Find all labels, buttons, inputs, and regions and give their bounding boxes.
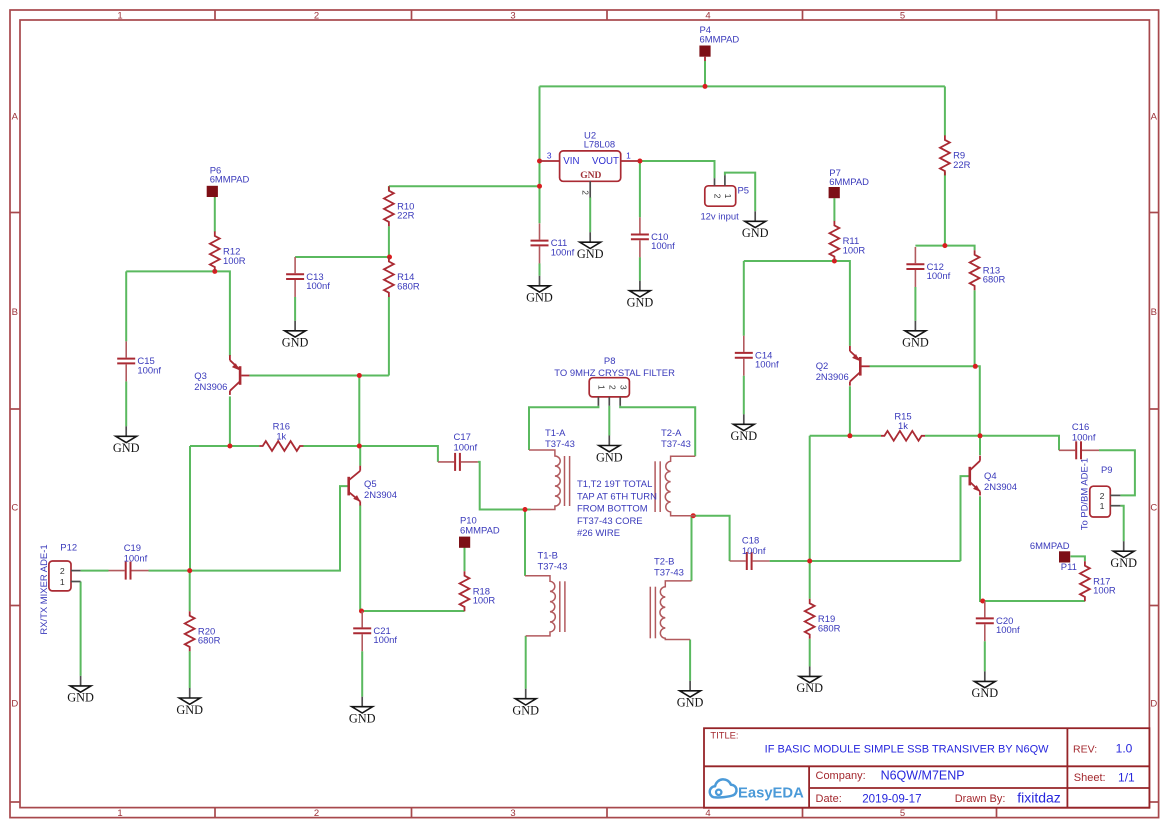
ground R19 bbox=[796, 666, 823, 695]
svg-text:P5: P5 bbox=[738, 186, 750, 197]
node junction bbox=[973, 364, 978, 369]
svg-text:GND: GND bbox=[526, 291, 553, 305]
wire R9 to node bbox=[944, 172, 946, 246]
capacitor C21 bbox=[353, 611, 397, 651]
svg-text:12v input: 12v input bbox=[700, 211, 739, 222]
connector P12 RX/TX MIXER ADE-1 bbox=[39, 542, 81, 634]
svg-text:1: 1 bbox=[1100, 501, 1105, 511]
svg-text:GND: GND bbox=[282, 336, 309, 350]
wire U2 pin2 to GND bbox=[589, 197, 591, 232]
capacitor C13 bbox=[286, 257, 330, 297]
resistor R19 bbox=[805, 599, 841, 639]
svg-text:2N3904: 2N3904 bbox=[984, 482, 1017, 493]
wire VCC rail bbox=[540, 85, 945, 87]
node junction bbox=[357, 444, 362, 449]
svg-text:5: 5 bbox=[900, 808, 905, 819]
svg-text:100R: 100R bbox=[223, 256, 246, 267]
svg-text:T2-A: T2-A bbox=[661, 428, 682, 439]
ground P8 bbox=[596, 436, 623, 465]
node junction bbox=[942, 243, 947, 248]
capacitor C18 bbox=[730, 535, 770, 570]
svg-text:3: 3 bbox=[510, 10, 515, 21]
svg-text:P12: P12 bbox=[60, 542, 77, 553]
U2 pin 2 bbox=[581, 181, 591, 197]
svg-text:D: D bbox=[11, 698, 18, 709]
svg-text:1: 1 bbox=[723, 194, 733, 199]
wire rail to R9 bbox=[944, 86, 946, 135]
svg-text:C16: C16 bbox=[1072, 422, 1089, 433]
U2 pin 3 bbox=[540, 150, 560, 161]
svg-text:P8: P8 bbox=[604, 356, 616, 367]
svg-text:2: 2 bbox=[581, 190, 591, 195]
pad P4 6MMPAD bbox=[699, 46, 710, 57]
ground C21 bbox=[349, 697, 376, 726]
svg-text:Date:: Date: bbox=[816, 793, 842, 805]
wire P6 to R12 bbox=[214, 197, 216, 232]
svg-text:100nf: 100nf bbox=[742, 546, 766, 557]
svg-text:C18: C18 bbox=[742, 535, 759, 546]
resistor R14 bbox=[384, 257, 420, 297]
svg-text:GND: GND bbox=[67, 691, 94, 705]
svg-text:1: 1 bbox=[117, 10, 122, 21]
title block bbox=[704, 728, 1149, 808]
svg-text:GND: GND bbox=[113, 441, 140, 455]
wire Q5 emitter to R18 line bbox=[360, 505, 464, 611]
wire T2-B to GND bbox=[689, 640, 691, 681]
capacitor C17 bbox=[438, 432, 478, 471]
wire VIN node to R10 bbox=[389, 185, 540, 187]
wire R12 node to Q3 emitter bbox=[215, 271, 230, 356]
svg-text:GND: GND bbox=[512, 704, 539, 718]
svg-text:6MMPAD: 6MMPAD bbox=[460, 526, 500, 537]
svg-text:TO 9MHZ CRYSTAL FILTER: TO 9MHZ CRYSTAL FILTER bbox=[554, 368, 675, 379]
svg-text:T37-43: T37-43 bbox=[661, 439, 691, 450]
wire Q2 collector down bbox=[849, 386, 851, 436]
svg-text:5: 5 bbox=[900, 10, 905, 21]
svg-text:FROM BOTTOM: FROM BOTTOM bbox=[577, 504, 648, 515]
pad P10 6MMPAD bbox=[459, 537, 470, 548]
wire stub bbox=[361, 610, 363, 612]
wire C21 to GND bbox=[361, 651, 363, 697]
transistor Q5 bbox=[349, 466, 397, 506]
svg-text:#26 WIRE: #26 WIRE bbox=[577, 528, 620, 539]
wire up to Q4 base bbox=[961, 476, 969, 561]
ground R20 bbox=[176, 688, 203, 717]
wire C13 to GND bbox=[294, 297, 296, 321]
svg-text:B: B bbox=[12, 307, 18, 318]
svg-text:100R: 100R bbox=[843, 245, 866, 256]
capacitor C11 bbox=[531, 223, 575, 263]
wire Q2 collector node to R19 bbox=[809, 436, 811, 599]
wire U2 VOUT to P5 pin2 bbox=[640, 161, 715, 178]
svg-text:GND: GND bbox=[742, 226, 769, 240]
wire R19 to GND bbox=[809, 639, 811, 667]
wire C13 node bbox=[295, 256, 389, 258]
svg-text:4: 4 bbox=[705, 808, 710, 819]
wire node to Q5 collector bbox=[359, 446, 361, 466]
wire T2-A to C18 bbox=[693, 516, 729, 561]
svg-text:1k: 1k bbox=[276, 431, 286, 442]
wire C18 node to Q4 base bbox=[770, 560, 961, 562]
svg-text:6MMPAD: 6MMPAD bbox=[700, 35, 740, 46]
svg-text:22R: 22R bbox=[953, 160, 970, 171]
resistor R15 bbox=[881, 411, 925, 440]
wire C11 to GND bbox=[539, 263, 541, 276]
ground C10 bbox=[627, 281, 654, 310]
svg-text:100nf: 100nf bbox=[137, 365, 161, 376]
svg-text:6MMPAD: 6MMPAD bbox=[1030, 541, 1070, 552]
wire node to C12 bbox=[915, 245, 945, 247]
wire R20 to GND bbox=[189, 651, 191, 688]
resistor R10 bbox=[384, 186, 415, 226]
svg-text:TAP AT 6TH TURN: TAP AT 6TH TURN bbox=[577, 491, 657, 502]
wire R17 line bbox=[983, 600, 1085, 602]
wire C14 to GND bbox=[743, 376, 745, 415]
resistor R17 bbox=[1080, 561, 1116, 601]
wire P9 pin1 to GND bbox=[1120, 506, 1123, 542]
pad P6 6MMPAD bbox=[207, 186, 218, 197]
svg-text:REV:: REV: bbox=[1073, 744, 1097, 756]
capacitor C19 bbox=[109, 543, 149, 579]
svg-text:3: 3 bbox=[510, 808, 515, 819]
svg-text:GND: GND bbox=[627, 296, 654, 310]
svg-text:2019-09-17: 2019-09-17 bbox=[862, 792, 921, 805]
svg-text:GND: GND bbox=[577, 247, 604, 261]
wire down to C19 node bbox=[189, 446, 191, 571]
transformer winding T2-B bbox=[650, 556, 691, 639]
svg-text:Q4: Q4 bbox=[984, 471, 997, 482]
wire T1-A bottom left bbox=[480, 509, 531, 511]
wire node left bbox=[810, 435, 850, 437]
resistor R16 bbox=[259, 422, 303, 451]
svg-text:GND: GND bbox=[730, 429, 757, 443]
wire node to C16 bbox=[980, 436, 1059, 451]
svg-text:4: 4 bbox=[705, 10, 710, 21]
svg-text:100R: 100R bbox=[473, 596, 496, 607]
svg-text:FT37-43 CORE: FT37-43 CORE bbox=[577, 516, 643, 527]
wire node to Q4 collector bbox=[979, 436, 981, 455]
svg-text:GND: GND bbox=[349, 712, 376, 726]
svg-text:B: B bbox=[1151, 307, 1157, 318]
svg-text:1k: 1k bbox=[898, 421, 908, 432]
svg-text:Q3: Q3 bbox=[194, 371, 207, 382]
svg-text:Q2: Q2 bbox=[816, 361, 829, 372]
wire Q3 collector down bbox=[229, 396, 231, 446]
wire R11 node left bbox=[744, 260, 835, 262]
node junction bbox=[359, 609, 364, 614]
wire Q4 emitter down bbox=[980, 496, 983, 601]
svg-text:T1,T2 19T TOTAL: T1,T2 19T TOTAL bbox=[577, 479, 652, 490]
wire node to R20 bbox=[189, 571, 191, 612]
wire C17 to T1-A bottom bbox=[478, 462, 525, 510]
svg-text:3: 3 bbox=[618, 385, 628, 390]
wire R10 top stub bbox=[388, 186, 390, 190]
ground T1-B bbox=[512, 689, 539, 718]
pad P11 6MMPAD bbox=[1059, 551, 1070, 562]
capacitor C20 bbox=[976, 601, 1020, 641]
wire base line to R16 line bbox=[358, 376, 360, 447]
svg-text:100nf: 100nf bbox=[996, 625, 1020, 636]
svg-text:T37-43: T37-43 bbox=[545, 439, 575, 450]
wire R16 left bbox=[190, 445, 259, 447]
wire Q2 base line bbox=[870, 365, 975, 367]
wire P10 to R18 bbox=[464, 548, 466, 572]
wire R15 to node bbox=[925, 435, 980, 437]
svg-text:EasyEDA: EasyEDA bbox=[738, 786, 804, 802]
svg-text:680R: 680R bbox=[818, 623, 841, 634]
svg-text:C17: C17 bbox=[454, 432, 471, 443]
ground P5 bbox=[742, 211, 769, 240]
wire node to Q5 base bbox=[190, 486, 348, 570]
ground P9 bbox=[1110, 541, 1137, 570]
svg-text:2: 2 bbox=[314, 10, 319, 21]
wire P4 to VCC rail bbox=[704, 61, 706, 87]
svg-text:2N3906: 2N3906 bbox=[194, 382, 227, 393]
ground C11 bbox=[526, 276, 553, 305]
svg-text:1: 1 bbox=[626, 150, 631, 160]
ground C20 bbox=[971, 671, 998, 700]
svg-text:2: 2 bbox=[713, 194, 723, 199]
svg-text:fixitdaz: fixitdaz bbox=[1017, 789, 1061, 805]
svg-text:D: D bbox=[1150, 698, 1157, 709]
svg-text:A: A bbox=[12, 111, 19, 122]
wire VOUT to C10 bbox=[639, 161, 641, 217]
svg-text:C: C bbox=[11, 502, 18, 513]
wire C16 to P9 pin2 bbox=[1099, 450, 1135, 495]
wire to R15 bbox=[850, 435, 881, 437]
svg-text:Sheet:: Sheet: bbox=[1074, 772, 1106, 784]
svg-text:2N3904: 2N3904 bbox=[364, 490, 397, 501]
svg-text:To PD/BM ADE-1: To PD/BM ADE-1 bbox=[1080, 458, 1091, 530]
wire R11 node to Q2 emitter bbox=[834, 261, 850, 346]
wire to C14 bbox=[743, 261, 745, 336]
connector P5 bbox=[700, 175, 749, 222]
svg-text:GND: GND bbox=[971, 686, 998, 700]
ground C15 bbox=[113, 426, 140, 455]
capacitor C16 bbox=[1059, 422, 1099, 459]
svg-text:GND: GND bbox=[1110, 556, 1137, 570]
node junction bbox=[637, 159, 642, 164]
wire P12 pin1 to GND bbox=[80, 582, 82, 676]
svg-text:P9: P9 bbox=[1101, 465, 1113, 476]
svg-text:680R: 680R bbox=[397, 282, 420, 293]
node junction bbox=[227, 444, 232, 449]
svg-text:Q5: Q5 bbox=[364, 479, 377, 490]
wire C12 to GND bbox=[914, 287, 916, 321]
node junction bbox=[387, 255, 392, 260]
svg-text:T1-B: T1-B bbox=[538, 550, 558, 561]
wire P11 to R17 bbox=[1071, 556, 1085, 561]
connector P8 TO 9MHZ CRYSTAL FILTER bbox=[554, 356, 675, 406]
svg-text:GND: GND bbox=[596, 450, 623, 464]
U2 pin 1 bbox=[621, 150, 639, 161]
svg-text:T2-B: T2-B bbox=[654, 556, 674, 567]
svg-text:100nf: 100nf bbox=[373, 635, 397, 646]
wire T1-B to GND bbox=[525, 636, 527, 689]
wire Q3 base line bbox=[249, 375, 389, 377]
wire T1-A to T1-B bbox=[524, 510, 526, 576]
svg-text:680R: 680R bbox=[198, 636, 221, 647]
capacitor C14 bbox=[735, 336, 779, 376]
svg-text:2: 2 bbox=[608, 385, 618, 390]
transformer winding T2-A bbox=[655, 428, 695, 516]
svg-text:1/1: 1/1 bbox=[1118, 771, 1135, 785]
svg-text:GND: GND bbox=[677, 696, 704, 710]
wire node to R13 bbox=[945, 246, 975, 251]
resistor R13 bbox=[970, 250, 1006, 290]
resistor R20 bbox=[185, 611, 221, 651]
node junction bbox=[212, 269, 217, 274]
svg-text:GND: GND bbox=[580, 171, 601, 181]
svg-text:100nf: 100nf bbox=[306, 281, 330, 292]
svg-text:1: 1 bbox=[60, 577, 65, 587]
node junction bbox=[187, 568, 192, 573]
ground T2-B bbox=[677, 681, 704, 710]
wire P8 pin2 to GND bbox=[608, 406, 610, 436]
resistor R12 bbox=[210, 231, 246, 271]
svg-text:P11: P11 bbox=[1061, 562, 1077, 573]
svg-text:100nf: 100nf bbox=[454, 443, 478, 454]
ground C12 bbox=[902, 321, 929, 350]
node junction bbox=[807, 559, 812, 564]
wire C15 top bbox=[125, 271, 127, 341]
svg-text:100nf: 100nf bbox=[124, 554, 148, 565]
svg-text:T37-43: T37-43 bbox=[538, 561, 568, 572]
svg-text:N6QW/M7ENP: N6QW/M7ENP bbox=[881, 769, 965, 783]
svg-text:T1-A: T1-A bbox=[545, 428, 566, 439]
wire R10 to C13 node bbox=[388, 226, 390, 257]
svg-text:3: 3 bbox=[547, 150, 552, 160]
svg-text:RX/TX MIXER ADE-1: RX/TX MIXER ADE-1 bbox=[39, 544, 50, 634]
svg-text:T37-43: T37-43 bbox=[654, 567, 684, 578]
ground U2 bbox=[577, 232, 604, 261]
ground P12 bbox=[67, 676, 94, 705]
svg-text:Drawn By:: Drawn By: bbox=[955, 793, 1006, 805]
svg-text:22R: 22R bbox=[397, 211, 414, 222]
wire base node down to R15 line bbox=[975, 366, 980, 436]
wire R16 right to C17 bbox=[303, 446, 438, 462]
svg-text:C19: C19 bbox=[124, 543, 141, 554]
svg-text:TITLE:: TITLE: bbox=[710, 729, 738, 740]
svg-text:GND: GND bbox=[176, 703, 203, 717]
node junction bbox=[832, 259, 837, 264]
note T1,T2 winding bbox=[577, 479, 657, 539]
pad P7 6MMPAD bbox=[829, 187, 840, 198]
node junction bbox=[978, 433, 983, 438]
node junction bbox=[537, 184, 542, 189]
wire P12 pin2 to C19 bbox=[81, 570, 109, 572]
svg-text:VIN: VIN bbox=[563, 156, 579, 167]
svg-text:C: C bbox=[1150, 502, 1157, 513]
transistor Q2 bbox=[816, 346, 870, 386]
transformer winding T1-A bbox=[529, 428, 575, 509]
node junction bbox=[537, 159, 542, 164]
svg-text:100R: 100R bbox=[1093, 586, 1116, 597]
node junction bbox=[980, 599, 985, 604]
svg-text:6MMPAD: 6MMPAD bbox=[210, 174, 250, 185]
wire R13 to Q2 base line bbox=[974, 290, 976, 366]
svg-text:Company:: Company: bbox=[816, 770, 866, 782]
node junction bbox=[703, 84, 708, 89]
svg-text:1: 1 bbox=[117, 808, 122, 819]
svg-text:2: 2 bbox=[314, 808, 319, 819]
connector P9 To PD/BM ADE-1 bbox=[1080, 458, 1121, 530]
transistor Q4 bbox=[970, 456, 1017, 496]
svg-text:2: 2 bbox=[1100, 491, 1105, 501]
svg-text:2N3906: 2N3906 bbox=[816, 372, 849, 383]
wire C20 to GND bbox=[984, 641, 986, 671]
svg-text:100nf: 100nf bbox=[551, 247, 575, 258]
capacitor C12 bbox=[906, 247, 950, 287]
EasyEDA logo bbox=[710, 779, 804, 801]
wire stub C20 bbox=[983, 600, 985, 602]
wire C10 to GND bbox=[639, 257, 641, 281]
capacitor C10 bbox=[631, 217, 675, 257]
wire P8 pin1 to T1-A bbox=[529, 406, 598, 450]
svg-text:GND: GND bbox=[902, 336, 929, 350]
svg-text:IF BASIC MODULE SIMPLE SSB TRA: IF BASIC MODULE SIMPLE SSB TRANSIVER BY … bbox=[765, 744, 1049, 756]
svg-text:L78L08: L78L08 bbox=[584, 140, 616, 151]
resistor R11 bbox=[830, 221, 866, 261]
resistor R9 bbox=[940, 135, 971, 175]
svg-text:1.0: 1.0 bbox=[1116, 742, 1133, 756]
ground C13 bbox=[282, 321, 309, 350]
node junction bbox=[357, 373, 362, 378]
svg-text:100nf: 100nf bbox=[1072, 433, 1096, 444]
node junction bbox=[691, 513, 696, 518]
wire R14 to Q3 base line bbox=[388, 297, 390, 376]
svg-text:6MMPAD: 6MMPAD bbox=[829, 177, 869, 188]
svg-text:100nf: 100nf bbox=[927, 271, 951, 282]
wire T2-A to T2-B bbox=[691, 516, 693, 581]
svg-text:100nf: 100nf bbox=[755, 360, 779, 371]
wire R12 node to C15 bbox=[126, 270, 215, 272]
svg-text:GND: GND bbox=[796, 681, 823, 695]
op-amp U2 L78L08 regulator bbox=[560, 131, 621, 182]
svg-text:1: 1 bbox=[597, 385, 607, 390]
wire P7 to R11 bbox=[833, 198, 835, 221]
svg-text:2: 2 bbox=[60, 566, 65, 576]
wire C19 to node bbox=[149, 570, 190, 572]
resistor R18 bbox=[460, 571, 496, 611]
wire C15 to GND bbox=[125, 381, 127, 426]
transformer winding T1-B bbox=[525, 550, 567, 636]
transistor Q3 bbox=[194, 355, 249, 395]
wire P8 pin3 to T2-A bbox=[620, 406, 695, 456]
svg-text:680R: 680R bbox=[983, 275, 1006, 286]
node junction bbox=[847, 433, 852, 438]
wire rail to U2 VIN / C11 bbox=[539, 86, 541, 223]
ground C14 bbox=[730, 414, 757, 443]
svg-text:A: A bbox=[1151, 111, 1158, 122]
svg-text:100nf: 100nf bbox=[651, 241, 675, 252]
wire P5 pin1 to GND bbox=[725, 173, 755, 212]
node junction bbox=[523, 507, 528, 512]
svg-text:VOUT: VOUT bbox=[592, 156, 619, 167]
capacitor C15 bbox=[117, 341, 161, 381]
